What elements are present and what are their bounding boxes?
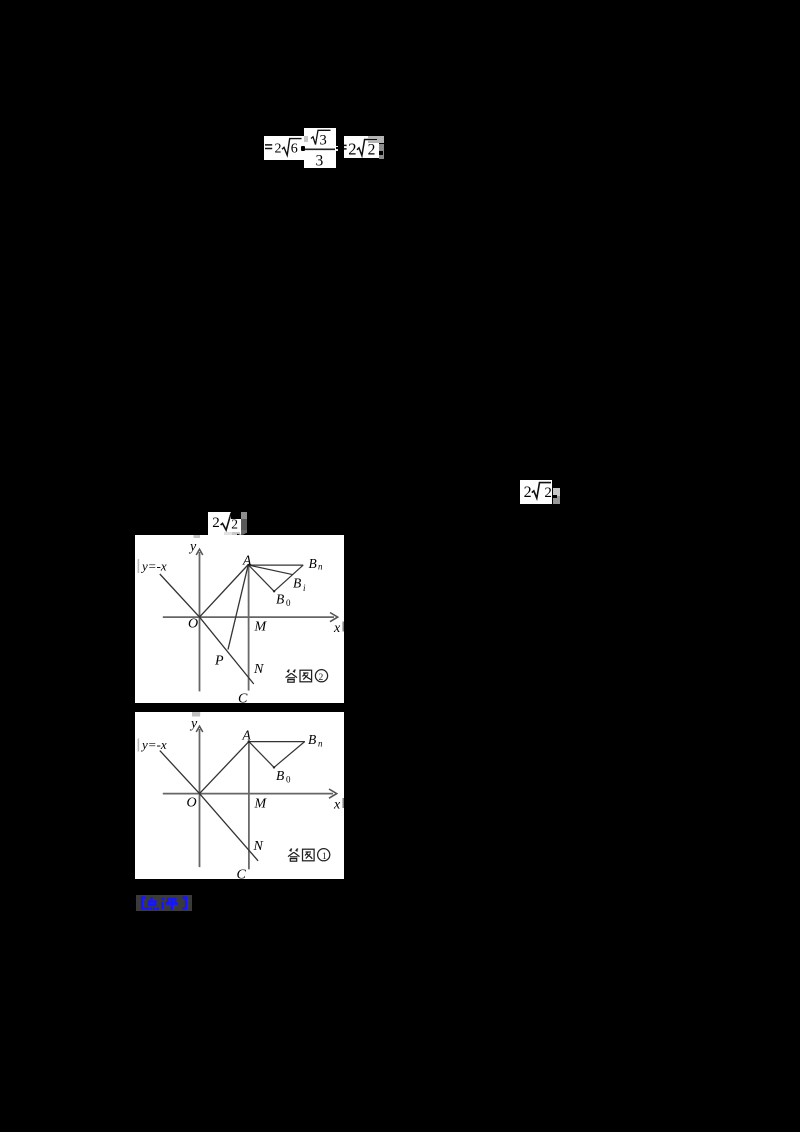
x axis bbox=[162, 616, 333, 618]
bottom mid patch bbox=[232, 532, 241, 536]
line O-A bbox=[199, 742, 248, 794]
gray column bottom bbox=[241, 530, 247, 535]
svg-text:B: B bbox=[308, 732, 316, 747]
dark bar behind blue text bbox=[136, 895, 192, 911]
svg-text:y: y bbox=[188, 540, 197, 555]
svg-text:y=-x: y=-x bbox=[140, 737, 167, 752]
gray right column lower bbox=[553, 496, 560, 504]
x axis bbox=[162, 792, 332, 794]
point dots bbox=[247, 740, 250, 743]
light gray square on fraction left edge bbox=[304, 136, 308, 142]
glyph circled 2 bbox=[315, 670, 327, 682]
line A-O bbox=[199, 565, 248, 618]
multiplication dot bbox=[301, 146, 306, 151]
svg-text:N: N bbox=[253, 662, 264, 677]
glyph ping bbox=[162, 898, 178, 910]
svg-text:6: 6 bbox=[290, 141, 297, 156]
svg-text:C: C bbox=[236, 867, 246, 879]
svg-text:2: 2 bbox=[524, 484, 532, 501]
gray column middle dark bbox=[241, 519, 247, 530]
svg-text:M: M bbox=[253, 796, 267, 811]
svg-text:x: x bbox=[333, 621, 341, 636]
left bracket bbox=[142, 898, 146, 909]
svg-text:0: 0 bbox=[286, 598, 291, 608]
caption da tu 1 glyphs bbox=[288, 848, 330, 861]
svg-text:B: B bbox=[276, 768, 284, 783]
svg-text:A: A bbox=[241, 727, 251, 742]
gray patch top-right of box3 bbox=[368, 136, 384, 144]
glyph da bbox=[287, 670, 296, 673]
svg-text:1: 1 bbox=[322, 852, 327, 862]
radical bar over gray patch bbox=[367, 139, 378, 141]
line y=-x bbox=[159, 574, 253, 684]
svg-text:2: 2 bbox=[545, 485, 553, 501]
right bracket bbox=[183, 898, 187, 909]
svg-text:O: O bbox=[186, 795, 196, 810]
svg-text:2: 2 bbox=[274, 141, 281, 156]
glyph circled 1 bbox=[317, 848, 329, 860]
glyph tu bbox=[302, 849, 314, 861]
bottom light patch bbox=[224, 532, 232, 536]
gray tick left edge bbox=[137, 738, 139, 751]
svg-text:B: B bbox=[293, 576, 301, 591]
svg-text:y=-x: y=-x bbox=[140, 559, 167, 574]
svg-text:2: 2 bbox=[212, 515, 220, 531]
glyph dian bbox=[147, 897, 158, 910]
svg-text:n: n bbox=[318, 562, 323, 572]
right edge tick bbox=[342, 798, 343, 808]
svg-text:3: 3 bbox=[316, 152, 324, 169]
line y=-x bbox=[159, 750, 257, 860]
svg-text:A: A bbox=[242, 553, 252, 568]
svg-text:0: 0 bbox=[286, 774, 291, 784]
svg-text:n: n bbox=[318, 738, 323, 748]
line A-Bn bbox=[248, 740, 304, 742]
caption da tu 2 glyphs bbox=[285, 670, 327, 683]
clipped equals tick after fraction bbox=[336, 146, 338, 147]
eq fraction box sqrt3/3 bbox=[304, 128, 336, 168]
line A-P bbox=[228, 565, 248, 650]
y axis bbox=[198, 552, 200, 691]
line A-B0 bbox=[248, 741, 273, 767]
period bbox=[553, 495, 557, 498]
line B0-Bn bbox=[274, 741, 305, 767]
white box "2√2" right bbox=[520, 480, 552, 503]
y axis bbox=[198, 729, 200, 867]
glyph da bbox=[289, 848, 298, 851]
vertical line A-C bbox=[247, 741, 249, 869]
svg-text:P: P bbox=[214, 654, 224, 669]
svg-text:i: i bbox=[303, 583, 306, 593]
fan line A-Bn bbox=[248, 564, 303, 566]
gray tick left edge bbox=[137, 559, 139, 573]
gray column right of box3 bbox=[379, 144, 384, 160]
comma hook over gray column bbox=[237, 525, 247, 530]
svg-text:C: C bbox=[238, 692, 248, 704]
black notch top-right bbox=[231, 512, 240, 520]
right edge tick bbox=[342, 622, 343, 632]
svg-text:y: y bbox=[189, 716, 198, 731]
eq box1 "= 2√6" bbox=[264, 136, 304, 160]
svg-text:B: B bbox=[276, 592, 284, 607]
glyph tu bbox=[300, 670, 312, 682]
svg-text:O: O bbox=[188, 617, 198, 632]
light gray right column upper bbox=[553, 488, 560, 496]
svg-text:x: x bbox=[333, 797, 341, 812]
svg-text:2: 2 bbox=[367, 141, 375, 158]
svg-text:N: N bbox=[252, 839, 263, 854]
white box "2√2" left bbox=[208, 512, 241, 536]
svg-text:2: 2 bbox=[318, 673, 323, 683]
segment Bn-B0 bbox=[274, 565, 303, 591]
period after 2√2 bbox=[379, 151, 383, 155]
svg-text:2: 2 bbox=[348, 139, 356, 158]
svg-text:B: B bbox=[308, 556, 316, 571]
fan line A-B0 bbox=[248, 565, 274, 591]
eq box3 "2√2." bbox=[344, 136, 379, 158]
vertical line A-C bbox=[247, 565, 249, 691]
gray column top bbox=[241, 512, 247, 520]
fan line A-Bi bbox=[248, 565, 292, 575]
svg-text:3: 3 bbox=[320, 132, 327, 148]
svg-text:M: M bbox=[253, 620, 267, 635]
point A dot bbox=[247, 564, 250, 567]
